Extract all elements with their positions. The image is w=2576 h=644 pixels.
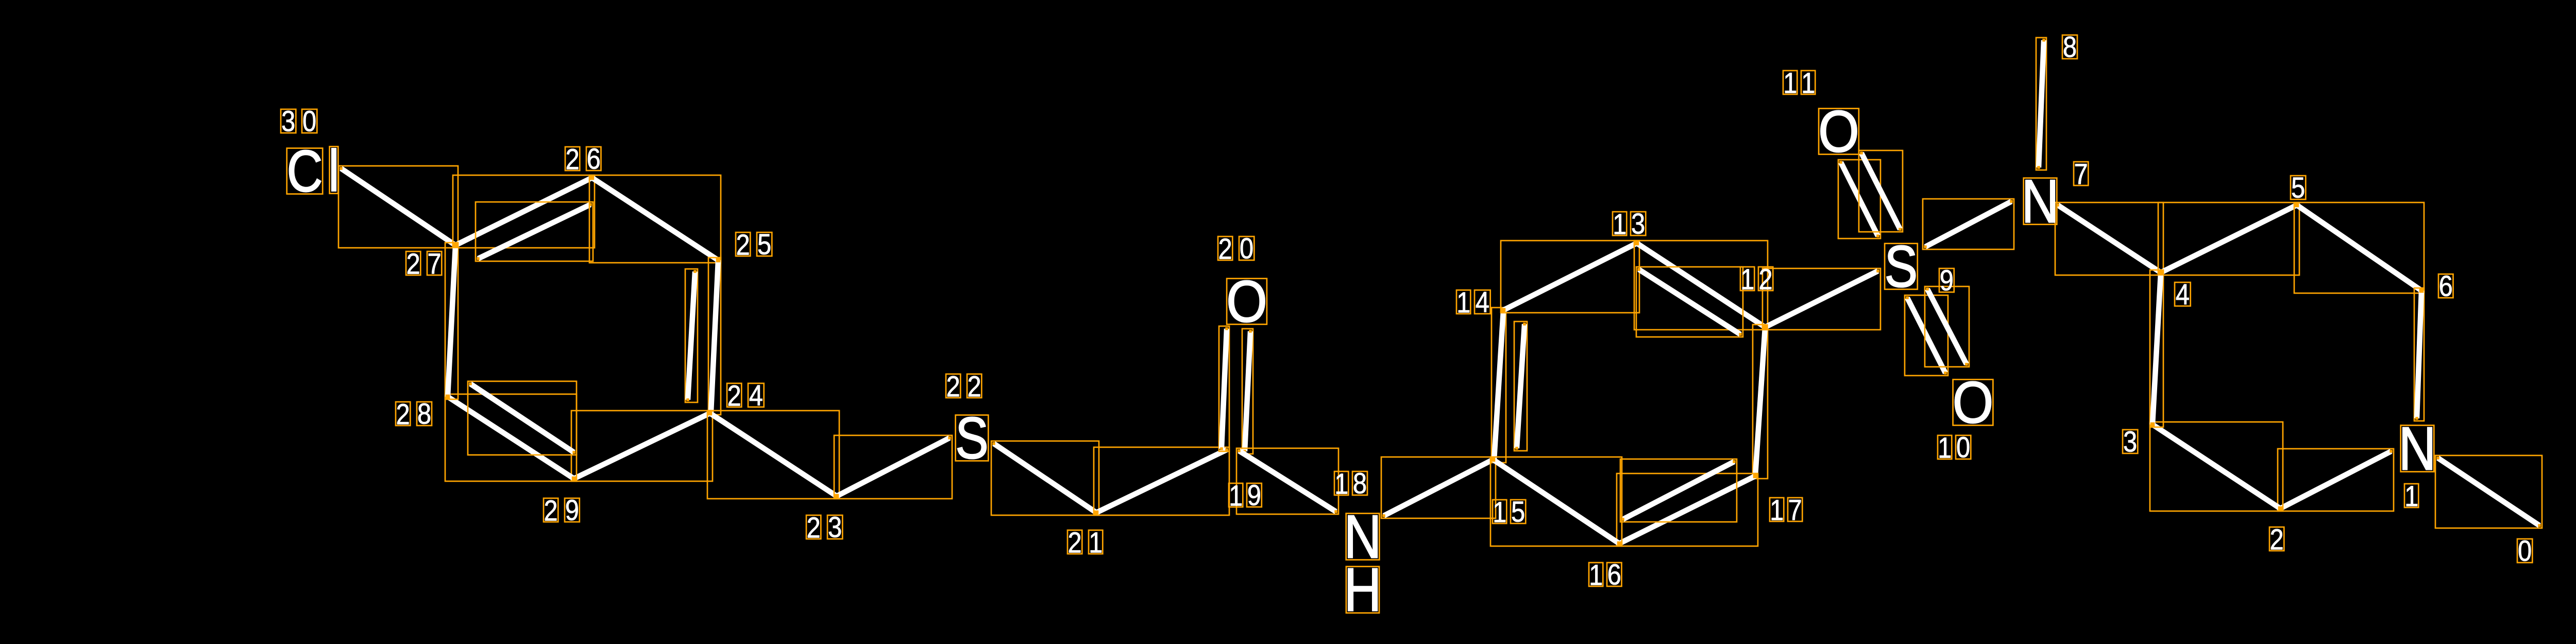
atom 30 Cl glyph C xyxy=(287,139,323,204)
svg-text:9: 9 xyxy=(1940,265,1954,297)
index label 21 xyxy=(1067,527,1103,559)
bond 15-16 xyxy=(1490,457,1622,546)
bond 9-10 line b (S=O) xyxy=(1925,286,1969,367)
bond 1-2 (N1-C2) xyxy=(2278,449,2394,511)
atom 22 S glyph xyxy=(955,405,989,471)
svg-text:l: l xyxy=(328,139,340,204)
svg-text:H: H xyxy=(1344,556,1381,624)
svg-text:2: 2 xyxy=(736,229,750,261)
atom 18 H glyph xyxy=(1344,556,1381,624)
index label 11 xyxy=(1783,67,1815,99)
atom 1 N glyph xyxy=(2398,415,2436,483)
svg-text:C: C xyxy=(287,139,323,204)
svg-text:8: 8 xyxy=(2063,31,2077,64)
svg-text:1: 1 xyxy=(1938,432,1952,464)
bond 23-24 xyxy=(707,411,839,499)
svg-text:1: 1 xyxy=(1613,208,1626,241)
svg-text:3: 3 xyxy=(1631,208,1645,241)
index label 6 xyxy=(2438,270,2453,303)
svg-text:2: 2 xyxy=(544,495,557,527)
svg-text:1: 1 xyxy=(1783,67,1797,99)
bond 15-18 (N18-C15) xyxy=(1381,457,1496,518)
svg-text:0: 0 xyxy=(2518,535,2532,568)
svg-text:4: 4 xyxy=(749,380,763,412)
index label 13 xyxy=(1613,208,1646,241)
svg-text:6: 6 xyxy=(2439,270,2453,303)
svg-text:N: N xyxy=(2021,167,2059,236)
svg-text:1: 1 xyxy=(1801,67,1815,99)
index label 16 xyxy=(1589,559,1622,592)
svg-text:N: N xyxy=(2398,415,2436,483)
svg-text:9: 9 xyxy=(1247,480,1261,512)
bond 14-15 main xyxy=(1492,308,1506,463)
bond 9-11 line b (S=O) xyxy=(1859,150,1903,232)
index label 25 xyxy=(736,229,772,262)
svg-text:5: 5 xyxy=(2291,172,2305,205)
atom 30 Cl glyph l xyxy=(328,139,340,204)
svg-text:8: 8 xyxy=(417,398,431,431)
svg-text:0: 0 xyxy=(302,106,316,138)
svg-text:0: 0 xyxy=(1240,233,1253,265)
svg-text:1: 1 xyxy=(1589,559,1603,591)
svg-text:1: 1 xyxy=(1229,480,1243,512)
atom 10 O glyph xyxy=(1953,369,1994,435)
svg-text:O: O xyxy=(1953,369,1994,435)
bond 19-21 xyxy=(1094,447,1229,515)
svg-text:2: 2 xyxy=(565,143,579,176)
index label 26 xyxy=(565,143,601,176)
svg-text:O: O xyxy=(1226,268,1267,334)
svg-text:7: 7 xyxy=(427,248,441,280)
bond 26-27 inner (double) xyxy=(476,202,593,261)
svg-text:1: 1 xyxy=(1334,468,1348,500)
svg-text:S: S xyxy=(955,405,989,471)
index label 27 xyxy=(406,248,442,280)
bond 22-23 (C23-S22) xyxy=(834,435,952,499)
svg-text:3: 3 xyxy=(2123,426,2137,459)
index label 24 xyxy=(727,380,764,412)
svg-text:2: 2 xyxy=(806,512,820,544)
svg-text:2: 2 xyxy=(2269,523,2283,556)
index label 28 xyxy=(396,398,432,431)
svg-text:3: 3 xyxy=(828,512,842,544)
svg-text:2: 2 xyxy=(396,398,410,431)
atom 18 N glyph xyxy=(1344,503,1381,571)
bond 25-26 xyxy=(589,175,721,263)
index label 5 xyxy=(2291,172,2306,205)
bond 0-1 (N1-C0) xyxy=(2435,455,2542,528)
svg-text:1: 1 xyxy=(1456,286,1470,319)
atom 9 S glyph xyxy=(1885,234,1918,299)
svg-text:2: 2 xyxy=(1758,263,1772,296)
index label 20 xyxy=(1218,233,1254,266)
svg-text:3: 3 xyxy=(281,106,295,138)
index label 2 xyxy=(2269,523,2284,556)
bond 19-20 line b (C=O) xyxy=(1242,329,1253,454)
index label 3 xyxy=(2123,426,2138,459)
bond 28-29 main xyxy=(445,394,577,481)
bond 24-25 main xyxy=(708,258,721,415)
index label 12 xyxy=(1740,263,1773,296)
bond 12-13 main xyxy=(1634,241,1768,330)
svg-text:S: S xyxy=(1885,234,1918,299)
svg-text:1: 1 xyxy=(1740,263,1754,296)
svg-text:1: 1 xyxy=(1770,494,1784,527)
bond 9-10 line a (S=O) xyxy=(1905,295,1948,376)
bond 24-29 xyxy=(571,411,713,481)
index label 10 xyxy=(1938,432,1971,465)
bond 5-6 xyxy=(2294,202,2424,293)
index label 23 xyxy=(806,512,842,545)
svg-text:2: 2 xyxy=(946,370,960,403)
svg-text:1: 1 xyxy=(1493,496,1506,529)
index label 1 xyxy=(2404,480,2418,513)
svg-text:8: 8 xyxy=(1353,468,1367,500)
bond 27-28 xyxy=(445,242,459,399)
bond 24-25 inner (double) xyxy=(685,269,698,402)
bond 18-19 (C19-N18) xyxy=(1236,448,1338,514)
bond 16-17 inner (double) xyxy=(1620,459,1737,522)
svg-text:5: 5 xyxy=(757,229,771,261)
svg-text:4: 4 xyxy=(2176,279,2190,311)
bond 7-8 (N7-C8) xyxy=(2036,38,2046,170)
index label 29 xyxy=(544,495,580,528)
bond 9-12 (S9-C12) xyxy=(1762,268,1880,330)
index label 14 xyxy=(1456,286,1490,319)
bond 21-22 (S22-C21) xyxy=(991,441,1099,515)
svg-text:5: 5 xyxy=(1511,496,1525,529)
bond 9-11 line a (S=O) xyxy=(1838,160,1880,239)
svg-text:2: 2 xyxy=(967,370,981,403)
index label 4 xyxy=(2175,279,2191,311)
svg-text:0: 0 xyxy=(1956,432,1970,464)
svg-text:6: 6 xyxy=(587,143,601,176)
index label 8 xyxy=(2062,31,2077,64)
bond 4-7 (N7-C4) xyxy=(2055,202,2164,276)
bond 4-5 xyxy=(2158,202,2299,276)
bond 3-4 xyxy=(2150,269,2164,427)
bond 14-15 inner (double) xyxy=(1514,321,1527,451)
index label 0 xyxy=(2517,535,2532,568)
bond 16-17 main xyxy=(1617,473,1758,546)
bond 26-27 main xyxy=(452,175,595,248)
bond 30-27 (Cl-C27) xyxy=(338,166,459,248)
svg-text:7: 7 xyxy=(2074,158,2088,191)
index label 30 xyxy=(281,106,317,138)
svg-text:4: 4 xyxy=(1476,286,1489,319)
svg-text:7: 7 xyxy=(1788,494,1802,527)
svg-text:2: 2 xyxy=(1067,527,1081,559)
svg-text:1: 1 xyxy=(2404,480,2418,513)
atom 7 N glyph xyxy=(2021,167,2059,236)
atom 20 O glyph xyxy=(1226,268,1267,334)
bond 7-9 (S9-N7) xyxy=(1923,199,2014,249)
svg-text:1: 1 xyxy=(1089,527,1103,559)
svg-text:O: O xyxy=(1818,98,1859,164)
bond 19-20 line a (C=O) xyxy=(1219,326,1229,451)
svg-text:2: 2 xyxy=(727,380,741,412)
bond 12-13 inner (double) xyxy=(1636,267,1743,337)
bond 28-29 inner (double) xyxy=(468,381,577,455)
svg-text:2: 2 xyxy=(1218,233,1232,265)
bond 2-3 xyxy=(2150,422,2283,511)
index label 18 xyxy=(1334,468,1367,501)
svg-text:6: 6 xyxy=(1607,559,1621,591)
index label 15 xyxy=(1493,496,1526,529)
index label 22 xyxy=(946,370,981,403)
atom 11 O glyph xyxy=(1818,98,1859,164)
bond 1-6 (C6-N1) xyxy=(2414,288,2424,421)
bond 13-14 xyxy=(1501,241,1639,313)
index label 7 xyxy=(2074,158,2088,191)
bond 12-17 xyxy=(1753,324,1768,479)
index label 19 xyxy=(1229,480,1262,513)
index label 9 xyxy=(1939,265,1954,297)
index label 17 xyxy=(1770,494,1802,527)
svg-text:9: 9 xyxy=(565,495,579,527)
svg-text:2: 2 xyxy=(406,248,420,280)
